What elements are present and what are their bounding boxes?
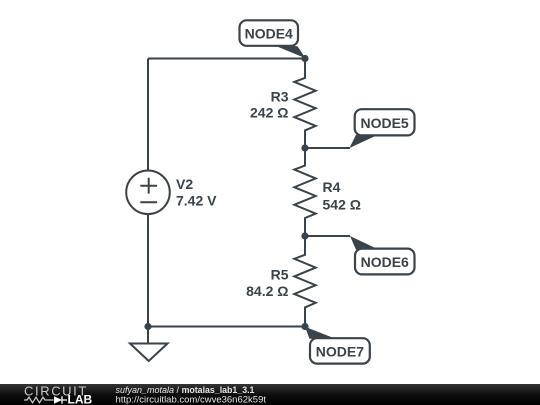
CircuitLab logo — [24, 384, 92, 405]
resistor R4 — [294, 148, 315, 236]
resistor R5 — [294, 236, 315, 327]
junction dot node6 — [301, 232, 308, 239]
node NODE4 — [240, 20, 306, 58]
svg-text:84.2 Ω: 84.2 Ω — [246, 283, 288, 299]
wire left upper — [147, 59, 149, 171]
footer bar — [0, 384, 540, 405]
svg-text:http://circuitlab.com/cwve36n6: http://circuitlab.com/cwve36n62k59t — [116, 395, 267, 405]
svg-text:R4: R4 — [323, 179, 341, 195]
svg-text:NODE6: NODE6 — [361, 254, 409, 270]
svg-text:7.42 V: 7.42 V — [176, 193, 217, 209]
node NODE6 — [350, 236, 415, 274]
label R3 value — [250, 88, 289, 120]
label R4 value — [323, 179, 361, 213]
svg-text:542 Ω: 542 Ω — [323, 197, 361, 213]
wire bottom horizontal — [148, 326, 305, 328]
svg-text:R5: R5 — [271, 266, 289, 282]
label V2 value — [176, 176, 217, 209]
svg-text:242 Ω: 242 Ω — [250, 105, 288, 121]
wire node6 stub — [305, 235, 350, 237]
svg-text:NODE4: NODE4 — [245, 26, 293, 42]
junction dot node7 — [301, 323, 308, 330]
resistor R3 — [294, 59, 315, 149]
node NODE7 — [305, 327, 370, 364]
svg-text:sufyan_motala / motalas_lab1_3: sufyan_motala / motalas_lab1_3.1 — [116, 385, 255, 395]
label R5 value — [246, 266, 289, 299]
junction dot node4 — [301, 55, 308, 62]
svg-text:LAB: LAB — [68, 392, 93, 405]
svg-text:NODE5: NODE5 — [360, 115, 408, 131]
credit text — [116, 385, 255, 395]
svg-text:V2: V2 — [176, 176, 193, 192]
url text — [116, 395, 267, 405]
junction dot node5 — [301, 144, 308, 151]
svg-text:R3: R3 — [271, 88, 289, 104]
ground — [130, 327, 168, 362]
wire top horizontal — [148, 58, 305, 60]
wire node5 stub — [305, 147, 350, 149]
node NODE5 — [350, 109, 415, 148]
voltage source V2 — [126, 171, 170, 215]
wire left lower — [147, 214, 149, 326]
junction dot bottom-left — [144, 323, 151, 330]
svg-text:NODE7: NODE7 — [316, 344, 364, 360]
